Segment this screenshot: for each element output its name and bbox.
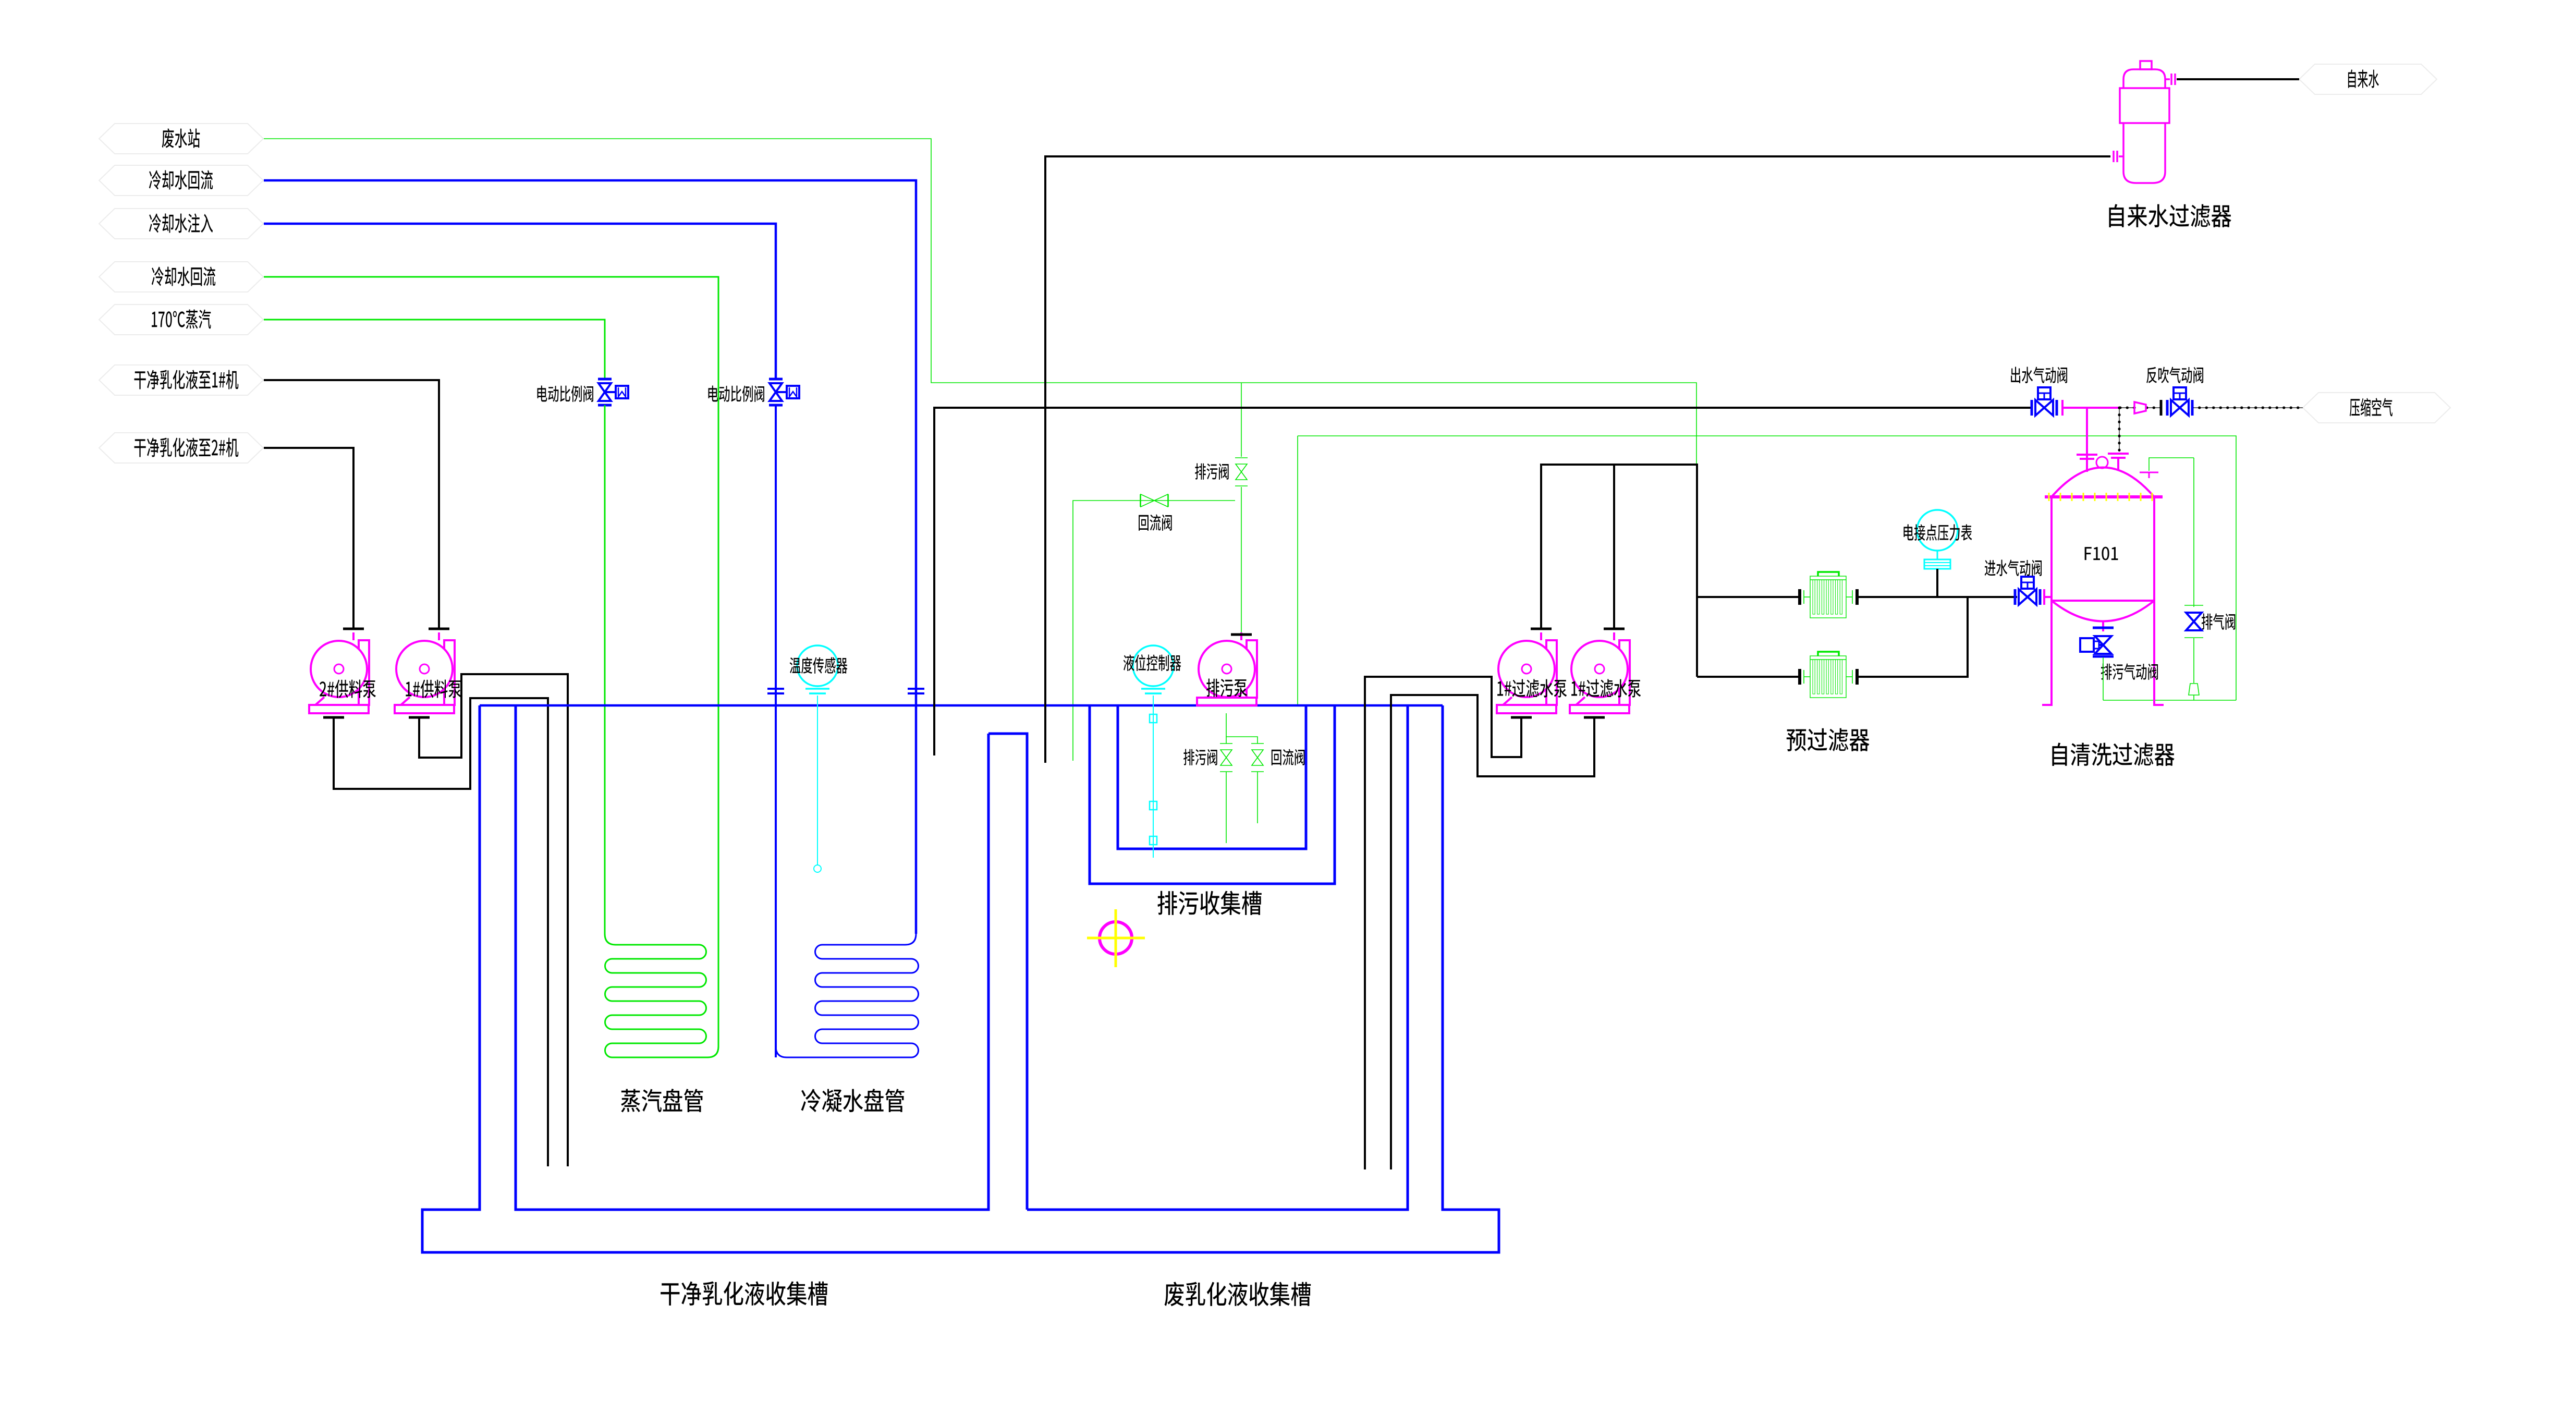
valve 回流阀 (in pit) (1251, 743, 1264, 744)
wire 干净乳化液至1#机 suction (264, 380, 439, 630)
vessel F101 dome circle (2096, 457, 2108, 468)
label 回流阀 (1139, 514, 1172, 530)
vessel F101 top right nozzle (2108, 453, 2129, 455)
label 出水气动阀 (2011, 367, 2067, 383)
node tag 废水站 (99, 124, 263, 154)
tank 排污收集槽 outer wall (1090, 705, 1335, 884)
label 电接点压力表 (1903, 524, 1972, 541)
wire vent drop to pit (1297, 436, 1298, 705)
wire drain-pump discharge to 废水站 line (1241, 383, 1242, 457)
label 排污阀 (in pit) (1183, 749, 1217, 765)
label 1#过滤水泵 (right) (1571, 679, 1641, 698)
wire 排污泵 suction into pit (1226, 713, 1258, 744)
wire vent valve to funnel (2193, 638, 2194, 683)
wire below 排污阀 (1226, 772, 1227, 843)
instrument 温度传感器 (797, 645, 838, 686)
wire 冷却水回流 (green) to steam coil right riser (264, 277, 718, 1046)
vessel 自来水过滤器 top nozzle (2140, 61, 2152, 69)
wire 干净乳化液至2#机 suction (264, 448, 353, 630)
pump 1#过滤水泵 (left) (1546, 640, 1557, 705)
label 1#供料泵 (406, 680, 461, 698)
wire right filter pump suction dip tube (1391, 695, 1594, 1169)
instrument 电接点压力表 (1917, 510, 1958, 551)
wire filter pump discharge manifold (1541, 465, 1697, 677)
vessel 自来水过滤器 band (2120, 88, 2169, 123)
flange pair on left riser (767, 688, 784, 690)
wire 冷却水回流 (blue) to coil right riser (264, 180, 916, 934)
wire 冷却水注入 to proportional valve (264, 224, 776, 379)
label 温度传感器 (790, 657, 848, 674)
label 1#过滤水泵 (left) (1497, 679, 1567, 698)
label F101 (2085, 547, 2118, 560)
wire 排污阀 to 排污泵 top (1241, 487, 1242, 636)
label 排污收集槽 (1157, 891, 1261, 916)
coil 蒸汽盘管 serpentine (605, 934, 718, 1057)
flange 2#供料泵 top (343, 628, 364, 630)
filter 预过滤器 lower (1810, 656, 1846, 698)
valve 电动比例阀 (cooling water) (769, 378, 783, 381)
label 2#供料泵 (320, 680, 376, 698)
vessel F101 flange bolts (yellow) (2048, 493, 2050, 501)
wire 回流阀 branch (1073, 501, 1235, 761)
label 自清洗过滤器 (2052, 742, 2174, 766)
wire lower pre-filter outlet (1857, 597, 1968, 677)
flange left filter pump bottom (1511, 716, 1532, 719)
valve 排污阀 (upper, on drain pump discharge) (1235, 457, 1248, 458)
flange 1#供料泵 bottom (409, 716, 430, 719)
node tag 170℃蒸汽 (99, 304, 263, 335)
node tag 冷却水回流(green) (99, 262, 263, 292)
vessel F101 shell (2050, 497, 2053, 601)
wire 自来水 inlet (2177, 78, 2299, 80)
funnel drain (2189, 684, 2199, 695)
datum crosshair (1100, 922, 1132, 954)
flange 排污泵 top (1231, 633, 1252, 636)
pump 排污泵 (1247, 640, 1257, 698)
wire 压缩空气 dotted line (2192, 407, 2303, 408)
label 液位控制器 (1124, 654, 1181, 671)
vessel F101 legs (2042, 601, 2052, 705)
valve 出水气动阀 (2031, 400, 2033, 416)
vessel 自来水过滤器 left nozzle (2119, 155, 2123, 157)
wire filtered water return line (934, 408, 2032, 755)
vessel 自来水过滤器 body (2123, 123, 2165, 183)
instrument 液位控制器 (1133, 645, 1174, 686)
label 排污阀 (1195, 463, 1228, 479)
flange magenta at vessel inlet (2043, 589, 2045, 605)
label 蒸汽盘管 (621, 1089, 703, 1112)
wire vessel bottom stub (2102, 621, 2104, 631)
valve 回流阀 (upper, horizontal) (1140, 494, 1141, 507)
wire tank rim main line (480, 704, 1443, 707)
node tag 冷却水回流(blue) (99, 165, 263, 196)
tank outer wall 干净/废乳化液收集槽 (422, 705, 1499, 1252)
wire 废水站 line (264, 139, 1696, 464)
valve 进水气动阀 (2014, 589, 2017, 605)
label 干净乳化液收集槽 (661, 1282, 827, 1306)
valve 反吹气动阀 (2166, 400, 2169, 416)
tank inner wall waste side (1027, 705, 1408, 1210)
wire pneumatic header (y=840) (1298, 436, 2236, 700)
wire upper pre-filter outlet (1857, 596, 2017, 598)
wire 1#供料泵 discharge dip tube (419, 674, 568, 1166)
pump 1#过滤水泵 (right) (1619, 640, 1630, 705)
label 预过滤器 (1787, 728, 1870, 752)
node tag 压缩空气 (2303, 393, 2450, 423)
wire below 回流阀 (1257, 772, 1258, 823)
node tag 自来水 (2299, 64, 2437, 94)
wire tap water make-up line (1045, 156, 2110, 763)
label 自来水过滤器 (2109, 204, 2231, 227)
label 冷凝水盘管 (801, 1089, 905, 1112)
wire vent line from dome (2149, 458, 2194, 471)
flange 1#供料泵 top (429, 628, 449, 630)
vessel 自来水过滤器 dome (2123, 69, 2165, 88)
label 电动比例阀 (cooling) (709, 386, 764, 402)
filter 预过滤器 upper (1810, 576, 1846, 618)
wire proportional valve to steam coil (604, 405, 606, 934)
flange 2#供料泵 bottom (323, 716, 344, 719)
vessel F101 top left nozzle (2086, 408, 2088, 472)
pump 2#供料泵 (359, 640, 369, 705)
flange black left of 反吹气动阀 (2160, 400, 2163, 416)
tank 排污收集槽 inner wall (1118, 705, 1306, 849)
wire manifold to upper pre-filter (1697, 596, 1800, 598)
vessel 自来水过滤器 right nozzle (2165, 78, 2170, 80)
valve 排污气动阀 (2093, 655, 2114, 658)
node tag 干净乳化液至1#机 (99, 365, 263, 395)
label 排污泵 (1206, 679, 1247, 697)
wire drain header bottom (2103, 700, 2236, 701)
valve 电动比例阀 (steam) (598, 378, 612, 381)
label 回流阀 (in pit) (1272, 749, 1305, 765)
flange left filter pump top (1531, 628, 1552, 630)
check valve (backflush) (2134, 402, 2146, 413)
label 电动比例阀 (steam) (538, 386, 593, 402)
valve 排污阀 (in pit) (1220, 743, 1232, 744)
wire proportional valve to coil left riser (775, 405, 777, 1057)
flange vessel bottom (2093, 627, 2114, 629)
flange magenta at outlet valve (2061, 400, 2064, 416)
vessel F101 vent nozzle (2140, 472, 2158, 473)
wire 2#供料泵 discharge dip tube (334, 698, 548, 1166)
wire vessel outlet (magenta) (2062, 407, 2119, 409)
flange pair on right riser (908, 688, 924, 690)
node tag 干净乳化液至2#机 (99, 433, 263, 463)
wire manifold to lower pre-filter (1697, 676, 1800, 678)
wire left filter pump suction dip tube (1365, 677, 1521, 1169)
label 进水气动阀 (1985, 559, 2042, 576)
pump 1#供料泵 (444, 640, 455, 705)
flange right filter pump bottom (1584, 716, 1605, 719)
label 排污气动阀 (2101, 663, 2158, 679)
tank inner wall clean side (516, 705, 988, 1210)
wire drain valve to header (2103, 657, 2104, 700)
vessel F101 flange line (2045, 495, 2163, 498)
coil 冷凝水盘管 serpentine (776, 934, 918, 1057)
label 废乳化液收集槽 (1165, 1282, 1311, 1307)
tank partition weir (988, 734, 1027, 1210)
node tag 冷却水注入 (99, 209, 263, 239)
label 反吹气动阀 (2146, 367, 2203, 383)
wire 170℃蒸汽 to proportional valve (264, 320, 605, 379)
label 排气阀 (2202, 613, 2235, 629)
flange right filter pump top (1604, 628, 1625, 630)
valve 排气阀 (2184, 605, 2203, 606)
